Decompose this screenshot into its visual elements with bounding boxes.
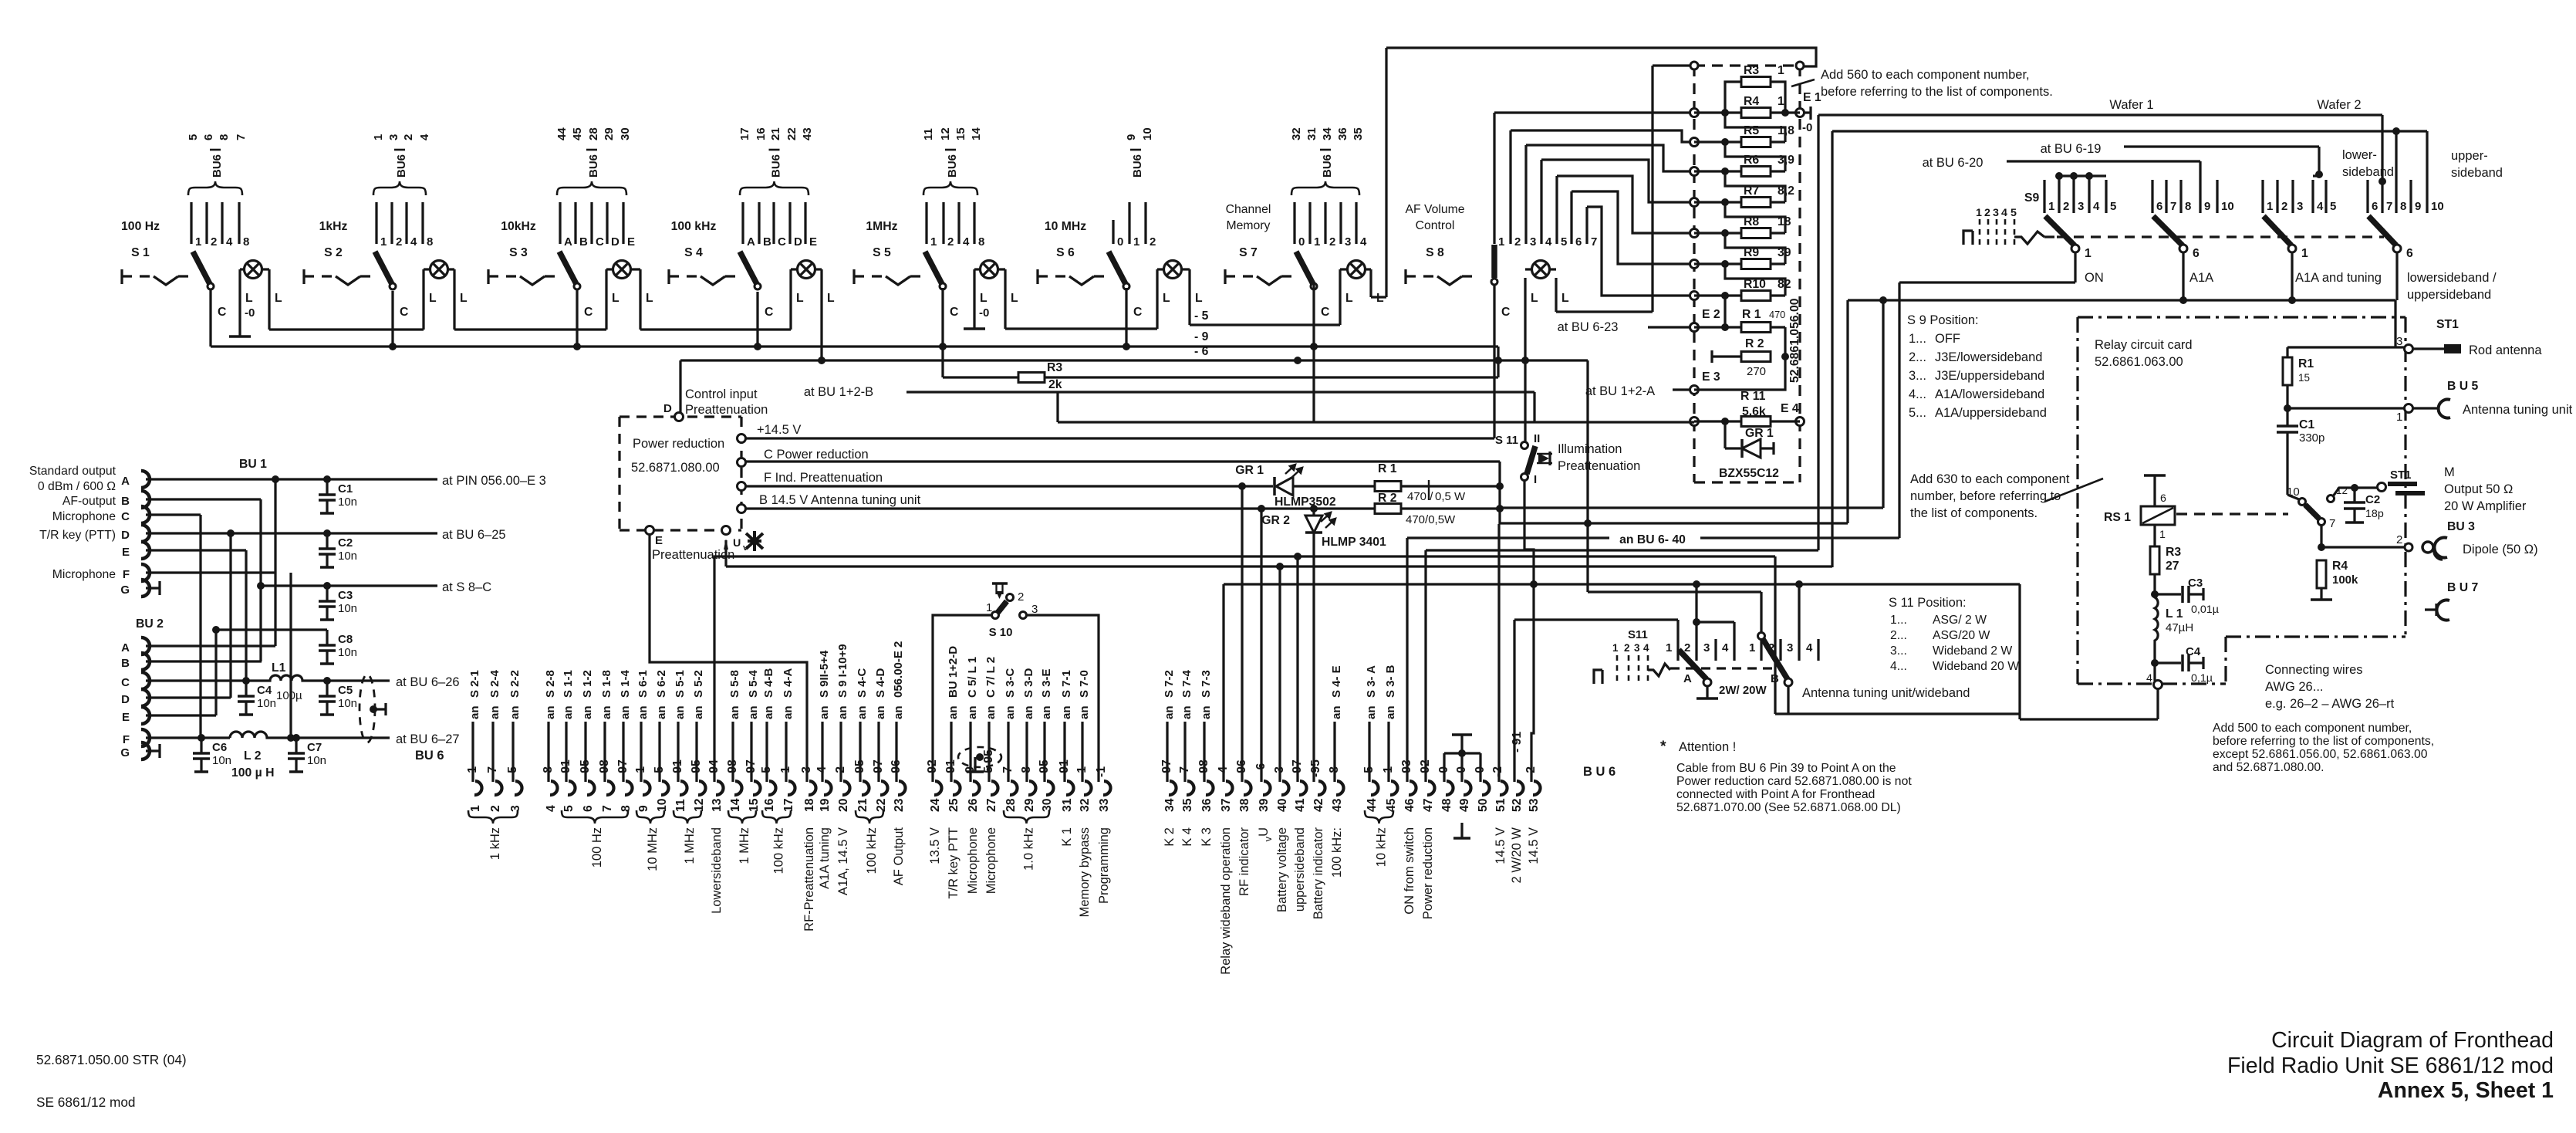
wire 767 feed: [1588, 590, 1761, 593]
BU6 pin 26: [972, 781, 980, 795]
svg-text:1: 1: [1498, 235, 1504, 249]
wire BU2 C row / at BU6-26: [146, 679, 268, 681]
svg-text:14.5 V: 14.5 V: [1494, 827, 1507, 864]
S8 pin 2 line: [1509, 130, 1511, 244]
svg-text:an: an: [762, 705, 775, 719]
svg-text:L: L: [646, 292, 653, 305]
svg-text:S 5-8: S 5-8: [728, 670, 741, 698]
cable shield oval: [360, 675, 375, 742]
svg-text:D: D: [794, 235, 802, 249]
svg-text:an: an: [468, 705, 481, 719]
ST1 rod antenna terminal 3: [2405, 345, 2413, 353]
svg-text:Antenna tuning unit: Antenna tuning unit: [2463, 403, 2573, 417]
S3 pin A line: [559, 202, 561, 244]
S4 lamp right lead to control line: [820, 269, 822, 360]
svg-text:36: 36: [1200, 798, 1214, 812]
svg-text:-95: -95: [690, 759, 703, 777]
svg-text:L: L: [796, 292, 804, 305]
resistor R2 470/0,5W: [1375, 504, 1401, 514]
svg-text:12: 12: [939, 127, 952, 140]
S9 wafer blade: [2368, 216, 2396, 245]
S6 pin 2 line: [1144, 202, 1146, 244]
svg-text:at S 8–C: at S 8–C: [442, 580, 491, 594]
svg-text:1: 1: [2159, 529, 2166, 541]
svg-text:-3: -3: [800, 766, 813, 777]
attenuator card 52.6861.056.00 dashed border: [1693, 66, 1695, 482]
R2 left termination: [1712, 355, 1741, 357]
svg-text:100k: 100k: [2332, 573, 2358, 587]
svg-text:A1A, 14.5 V: A1A, 14.5 V: [836, 827, 850, 895]
svg-text:R3: R3: [1047, 361, 1062, 374]
svg-text:S 6: S 6: [1056, 246, 1075, 259]
svg-text:AWG 26...: AWG 26...: [2265, 680, 2324, 694]
wire wafer1 drop to pin47 line: [1817, 115, 1819, 550]
tap wire S8 pin to ladder row y262: [1541, 160, 1694, 202]
riser pin 38: [1241, 486, 1243, 782]
svg-text:- 5: - 5: [1194, 309, 1209, 323]
svg-text:28: 28: [1004, 798, 1018, 812]
svg-text:6: 6: [2193, 247, 2200, 260]
S5 pin 4 line: [957, 202, 960, 244]
pin group 1 MHz: [728, 810, 756, 824]
BU6 pin 35: [1187, 781, 1194, 795]
svg-text:3...: 3...: [1909, 369, 1926, 383]
wire BU2 D row: [146, 696, 231, 698]
svg-text:7: 7: [2386, 200, 2392, 213]
svg-text:the list of components.: the list of components.: [1910, 506, 2038, 520]
svg-text:II: II: [1534, 432, 1540, 445]
svg-text:Battery voltage: Battery voltage: [1275, 827, 1289, 912]
svg-text:10n: 10n: [212, 754, 231, 767]
pin group 100 kHz: [856, 810, 883, 824]
capacitor C4 10n: [245, 681, 247, 695]
at BU 1+2-B wire: [906, 391, 1534, 393]
switch blade: [1109, 252, 1126, 284]
BU6 pin 32: [1084, 781, 1092, 795]
svg-text:Illumination: Illumination: [1558, 442, 1622, 456]
wire S11-I to pin 53: [1524, 480, 1534, 782]
BU6 pin 18: [809, 781, 816, 795]
svg-text:-98: -98: [1197, 759, 1210, 777]
svg-text:1: 1: [2267, 200, 2273, 213]
S11 detent dashed: [1670, 667, 1774, 669]
svg-text:10: 10: [2431, 200, 2444, 213]
svg-text:Preattenuation: Preattenuation: [652, 548, 734, 562]
svg-text:-0: -0: [245, 306, 255, 320]
wire R11 row feed: [1058, 421, 1694, 423]
BU2 pin G: [141, 742, 150, 759]
svg-text:an: an: [1200, 705, 1213, 719]
svg-text:2: 2: [1329, 235, 1335, 249]
svg-text:an: an: [1040, 705, 1053, 719]
S8 lamp right lead riser to card: [1555, 278, 1557, 312]
pin group 1 kHz: [468, 810, 518, 824]
pointer line add630: [2044, 479, 2103, 502]
BU6 pin 16: [768, 781, 776, 795]
svg-text:-5 95: -5 95: [982, 749, 995, 777]
svg-text:E: E: [655, 534, 663, 547]
BU2 pin C: [141, 672, 150, 689]
svg-text:S 10: S 10: [989, 626, 1013, 639]
svg-text:S 4-B: S 4-B: [762, 668, 775, 698]
wire B1 riser: [1760, 592, 1762, 633]
wafer feed wire 1: [1818, 113, 2382, 116]
BU6 pin 37: [1225, 781, 1233, 795]
wire deck B pin3 riser: [1798, 584, 1800, 639]
svg-text:S 2-8: S 2-8: [544, 670, 557, 698]
svg-text:-4: -4: [815, 766, 829, 777]
svg-text:5: 5: [2330, 200, 2336, 213]
BU6 pin 39: [1263, 781, 1271, 795]
S1 lamp right lead: [268, 269, 270, 330]
wire drop2 to Uv line: [1831, 131, 1833, 567]
svg-text:S 4-D: S 4-D: [874, 668, 887, 698]
svg-text:C2: C2: [2365, 493, 2380, 506]
switch blade: [740, 252, 757, 284]
deck B blade: [1763, 639, 1788, 679]
S3 pin B line: [574, 202, 576, 244]
svg-text:ST1: ST1: [2436, 318, 2459, 331]
R5 leads: [1694, 140, 1741, 143]
svg-text:- 6: - 6: [1194, 345, 1209, 358]
S1 C wire: [209, 290, 211, 347]
svg-text:lowersideband /: lowersideband /: [2407, 271, 2497, 285]
lamp GL1: [245, 261, 262, 279]
svg-text:330p: 330p: [2299, 431, 2324, 445]
svg-text:Circuit Diagram of Fronthead: Circuit Diagram of Fronthead: [2271, 1028, 2554, 1053]
svg-text:1: 1: [1133, 235, 1139, 249]
svg-text:R 2: R 2: [1745, 337, 1764, 350]
svg-text:1: 1: [2301, 247, 2308, 260]
RS1 mechanical dashed link: [2176, 512, 2288, 515]
weave wire A-A2: [274, 479, 276, 646]
wire BU2 F row / at BU6-27: [146, 736, 230, 739]
deck A blade: [1679, 650, 1707, 679]
resistor R4 100k: [2317, 560, 2326, 588]
link R10-R1: [1724, 296, 1726, 327]
svg-text:L1: L1: [272, 661, 286, 675]
svg-text:A1A/uppersideband: A1A/uppersideband: [1935, 406, 2047, 420]
actuator dashed link: [1224, 269, 1226, 284]
wire 12 to ST1 output: [2333, 488, 2378, 496]
svg-text:-97: -97: [872, 759, 885, 777]
svg-text:M: M: [2444, 465, 2455, 479]
svg-text:0 dBm / 600 Ω: 0 dBm / 600 Ω: [38, 480, 116, 493]
BU6 pin 52: [1516, 781, 1524, 795]
BU6 pin 43: [1336, 781, 1344, 795]
svg-text:B: B: [1771, 672, 1779, 685]
svg-text:6: 6: [2406, 247, 2413, 260]
svg-text:A1A: A1A: [2189, 271, 2213, 285]
svg-text:BU6: BU6: [587, 154, 600, 178]
relay circuit card border: [2078, 316, 2406, 318]
svg-text:5: 5: [2110, 200, 2116, 213]
svg-text:L: L: [1561, 292, 1569, 305]
svg-text:an BU 6- 40: an BU 6- 40: [1619, 533, 1686, 546]
svg-text:at BU 6-19: at BU 6-19: [2041, 142, 2102, 156]
card edge contact: [1690, 198, 1699, 207]
RS1 pin 6 terminal: [2153, 476, 2156, 506]
svg-text:C: C: [121, 676, 130, 689]
svg-text:S 1-8: S 1-8: [600, 670, 613, 698]
svg-text:8: 8: [2185, 200, 2191, 213]
BU2 pin E: [141, 707, 150, 724]
svg-text:C 5/ L 1: C 5/ L 1: [966, 657, 979, 698]
svg-text:2: 2: [1514, 235, 1521, 249]
riser pin 52: [1513, 620, 1515, 782]
capacitor C2 18p: [2353, 488, 2355, 502]
svg-text:an: an: [782, 705, 795, 719]
svg-text:Cable from BU 6 Pin 39 to Poin: Cable from BU 6 Pin 39 to Point A on the: [1676, 762, 1896, 775]
svg-text:at BU 6–27: at BU 6–27: [396, 732, 460, 746]
svg-text:25: 25: [947, 798, 961, 812]
pins 48-50 tie: [1444, 752, 1480, 754]
S8 pin 6 line: [1570, 191, 1572, 244]
svg-text:3: 3: [1634, 642, 1640, 654]
R3 left lead: [1725, 82, 1741, 113]
resistor R6 3,9: [1741, 167, 1771, 177]
svg-text:an: an: [1365, 705, 1378, 719]
capacitor C6 10n: [200, 738, 202, 753]
pin group 100 Hz: [562, 810, 628, 824]
relay switch contact 7: [2318, 519, 2325, 526]
svg-text:-8: -8: [1020, 766, 1033, 777]
switch blade: [193, 252, 210, 284]
svg-text:AF-output: AF-output: [62, 495, 116, 508]
svg-text:C: C: [596, 235, 604, 249]
svg-text:1 MHz: 1 MHz: [738, 827, 751, 864]
svg-text:S 3-C: S 3-C: [1004, 668, 1017, 698]
C power reduction wire: [745, 460, 1500, 462]
svg-text:Output 50 Ω: Output 50 Ω: [2444, 482, 2513, 496]
svg-text:-91: -91: [559, 759, 572, 777]
S5 pin 8 line: [973, 202, 975, 244]
svg-text:26: 26: [967, 798, 980, 812]
svg-text:L: L: [1345, 292, 1353, 305]
wire S10-1 to pin24: [933, 615, 992, 782]
shield oval pins 26-27: [958, 747, 1001, 767]
svg-text:-91: -91: [671, 759, 684, 777]
LED GR1 HLMP3502: [1273, 477, 1276, 495]
svg-text:Microphone: Microphone: [52, 568, 116, 581]
svg-text:T/R key (PTT): T/R key (PTT): [39, 529, 116, 542]
svg-text:C: C: [1501, 306, 1510, 319]
BU2 pin D: [141, 689, 150, 706]
S8 C wire: [1493, 286, 1495, 438]
svg-text:A: A: [121, 641, 130, 654]
svg-text:18p: 18p: [2365, 508, 2384, 520]
svg-text:39: 39: [1258, 798, 1271, 812]
actuator dashed link: [667, 269, 670, 284]
svg-text:R3: R3: [2166, 546, 2181, 559]
svg-text:F: F: [123, 733, 130, 746]
svg-text:S9: S9: [2024, 191, 2040, 205]
BU6 pin 5: [568, 781, 576, 795]
S6 pin 1 line: [1128, 202, 1130, 244]
lamp GL4: [798, 261, 815, 279]
svg-text:3: 3: [387, 134, 400, 140]
svg-text:2 W/20 W: 2 W/20 W: [1510, 827, 1524, 884]
svg-text:2: 2: [1018, 590, 1024, 604]
wire BU1 F row: [146, 571, 275, 573]
svg-text:sideband: sideband: [2342, 165, 2394, 179]
svg-text:-2: -2: [1491, 766, 1504, 777]
svg-text:BU 2: BU 2: [136, 617, 164, 631]
svg-text:Wafer 1: Wafer 1: [2109, 98, 2153, 112]
S4 pin E line: [804, 202, 806, 244]
svg-text:1 MHz: 1 MHz: [683, 827, 697, 864]
svg-text:7: 7: [1591, 235, 1597, 249]
svg-text:B: B: [121, 495, 130, 508]
svg-text:5: 5: [2010, 207, 2017, 219]
BU6 pin 46: [1409, 781, 1416, 795]
svg-text:S 5: S 5: [873, 246, 891, 259]
svg-text:-1: -1: [634, 766, 647, 777]
svg-text:4: 4: [226, 235, 233, 249]
svg-text:ON from switch: ON from switch: [1403, 827, 1416, 915]
svg-text:3: 3: [1993, 207, 1999, 219]
BU6 pin 50: [1482, 781, 1490, 795]
svg-text:B: B: [121, 657, 130, 670]
svg-text:45: 45: [1385, 798, 1398, 812]
svg-text:an: an: [874, 705, 887, 719]
svg-text:2...: 2...: [1909, 350, 1926, 364]
weave wire F down: [289, 573, 292, 738]
svg-text:4...: 4...: [1890, 660, 1907, 673]
S8 pin 1 line: [1493, 113, 1495, 244]
svg-text:AF Volume: AF Volume: [1405, 203, 1464, 216]
resistor R7 8,2: [1741, 198, 1771, 208]
svg-text:4: 4: [1360, 235, 1367, 249]
svg-text:14: 14: [729, 798, 742, 812]
svg-text:S11: S11: [1628, 628, 1648, 641]
svg-text:L 2: L 2: [244, 749, 262, 763]
actuator dashed link: [302, 269, 305, 284]
svg-text:8: 8: [978, 235, 984, 249]
svg-text:Power reduction: Power reduction: [1421, 827, 1435, 919]
svg-text:Preattenuation: Preattenuation: [1558, 459, 1640, 473]
svg-text:2: 2: [211, 235, 217, 249]
svg-text:2: 2: [2281, 200, 2287, 213]
bottom return wire: [1775, 712, 2020, 715]
wire R3 to C3 node: [2153, 574, 2156, 594]
svg-text:Connecting wires: Connecting wires: [2265, 663, 2363, 677]
svg-text:v: v: [1262, 836, 1274, 841]
svg-text:-0: -0: [1802, 121, 1812, 134]
svg-text:J3E/uppersideband: J3E/uppersideband: [1935, 369, 2044, 383]
svg-text:A: A: [564, 235, 572, 249]
pin D control input: [675, 413, 684, 421]
svg-text:-95: -95: [1038, 759, 1051, 777]
svg-text:K 2: K 2: [1163, 827, 1177, 847]
bus left drop: [1846, 300, 1848, 523]
svg-text:10 MHz: 10 MHz: [646, 827, 660, 871]
BU6 pin 24: [934, 781, 942, 795]
BU6 pin 1: [474, 781, 482, 795]
svg-text:E: E: [809, 235, 817, 249]
svg-text:S 11 Position:: S 11 Position:: [1889, 596, 1967, 610]
svg-text:10n: 10n: [338, 646, 357, 659]
lamp bus S1-S2: [269, 328, 424, 330]
svg-text:42: 42: [1312, 798, 1325, 812]
tap wire S8 pin to ladder row y342: [1572, 191, 1694, 264]
svg-text:-97: -97: [616, 759, 630, 777]
svg-text:S 1-1: S 1-1: [562, 670, 575, 698]
S9 wafer contacts 6-10: [2151, 180, 2153, 213]
S5 lamp right lead: [1004, 269, 1006, 329]
svg-text:S 4: S 4: [684, 246, 703, 259]
S7 lamp left lead: [1339, 269, 1341, 325]
svg-text:B U 7: B U 7: [2447, 581, 2479, 594]
BU6 pin 27: [991, 781, 998, 795]
svg-text:C: C: [121, 510, 130, 523]
wafer2-B riser pin8: [2395, 131, 2397, 180]
wire BU2 A row: [146, 644, 275, 647]
BU6 pin 34: [1169, 781, 1177, 795]
svg-text:S 9II-5+4: S 9II-5+4: [818, 650, 831, 698]
deck B pivot drop: [1787, 686, 1789, 714]
svg-text:L: L: [429, 292, 437, 305]
svg-text:before referring to the list o: before referring to the list of componen…: [2213, 735, 2434, 748]
lamp GL3: [613, 261, 631, 279]
BU6 pin 25: [953, 781, 961, 795]
svg-text:C1: C1: [2299, 418, 2314, 431]
svg-text:28: 28: [587, 127, 600, 140]
svg-text:D: D: [611, 235, 620, 249]
svg-text:C4: C4: [257, 684, 272, 697]
svg-text:B 14.5 V Antenna tuning unit: B 14.5 V Antenna tuning unit: [759, 493, 921, 507]
actuator dashed link: [120, 269, 123, 284]
wire riser 51 +14.5: [1497, 524, 1500, 782]
svg-text:BU6: BU6: [211, 154, 224, 178]
svg-text:470/0,5W: 470/0,5W: [1406, 513, 1456, 526]
svg-text:R 11: R 11: [1740, 390, 1766, 403]
wire contact7 to BU3: [2320, 526, 2322, 547]
svg-text:53: 53: [1528, 798, 1541, 812]
deck B pins: [1760, 639, 1762, 661]
svg-text:Standard output: Standard output: [29, 465, 116, 478]
svg-text:52.6871.080.00: 52.6871.080.00: [631, 461, 720, 475]
resistor R9 39: [1741, 259, 1771, 269]
series link R7-R8: [1725, 202, 1785, 233]
svg-text:1: 1: [195, 235, 201, 249]
S8 pin 4 line: [1540, 160, 1542, 244]
svg-text:-5: -5: [506, 766, 519, 777]
svg-text:BU 1: BU 1: [239, 458, 267, 471]
svg-text:except 52.6861.056.00, 52.6861: except 52.6861.056.00, 52.6861.063.00: [2213, 748, 2428, 761]
svg-text:43: 43: [1331, 798, 1344, 812]
BU6 brace: [557, 181, 626, 195]
svg-text:7: 7: [235, 134, 248, 140]
svg-text:34: 34: [1321, 127, 1334, 140]
BU6 pin 6: [587, 781, 595, 795]
S3 lamp left lead: [605, 269, 607, 330]
svg-text:C3: C3: [2188, 577, 2203, 590]
weave wire E2-C8: [214, 630, 217, 715]
S4 pin D line: [788, 202, 791, 244]
svg-text:24: 24: [929, 798, 942, 812]
BU6 pin 22: [880, 781, 888, 795]
capacitor C1 10n: [326, 479, 328, 494]
svg-text:-93: -93: [1400, 759, 1413, 777]
svg-text:Lowersideband: Lowersideband: [710, 827, 724, 914]
pivot contact: [574, 283, 580, 289]
svg-text:-1: -1: [1095, 766, 1108, 777]
svg-text:L: L: [980, 292, 988, 305]
S2 pin 8 line: [421, 202, 424, 244]
svg-text:Dipole (50 Ω): Dipole (50 Ω): [2463, 543, 2538, 556]
svg-text:an: an: [966, 705, 979, 719]
